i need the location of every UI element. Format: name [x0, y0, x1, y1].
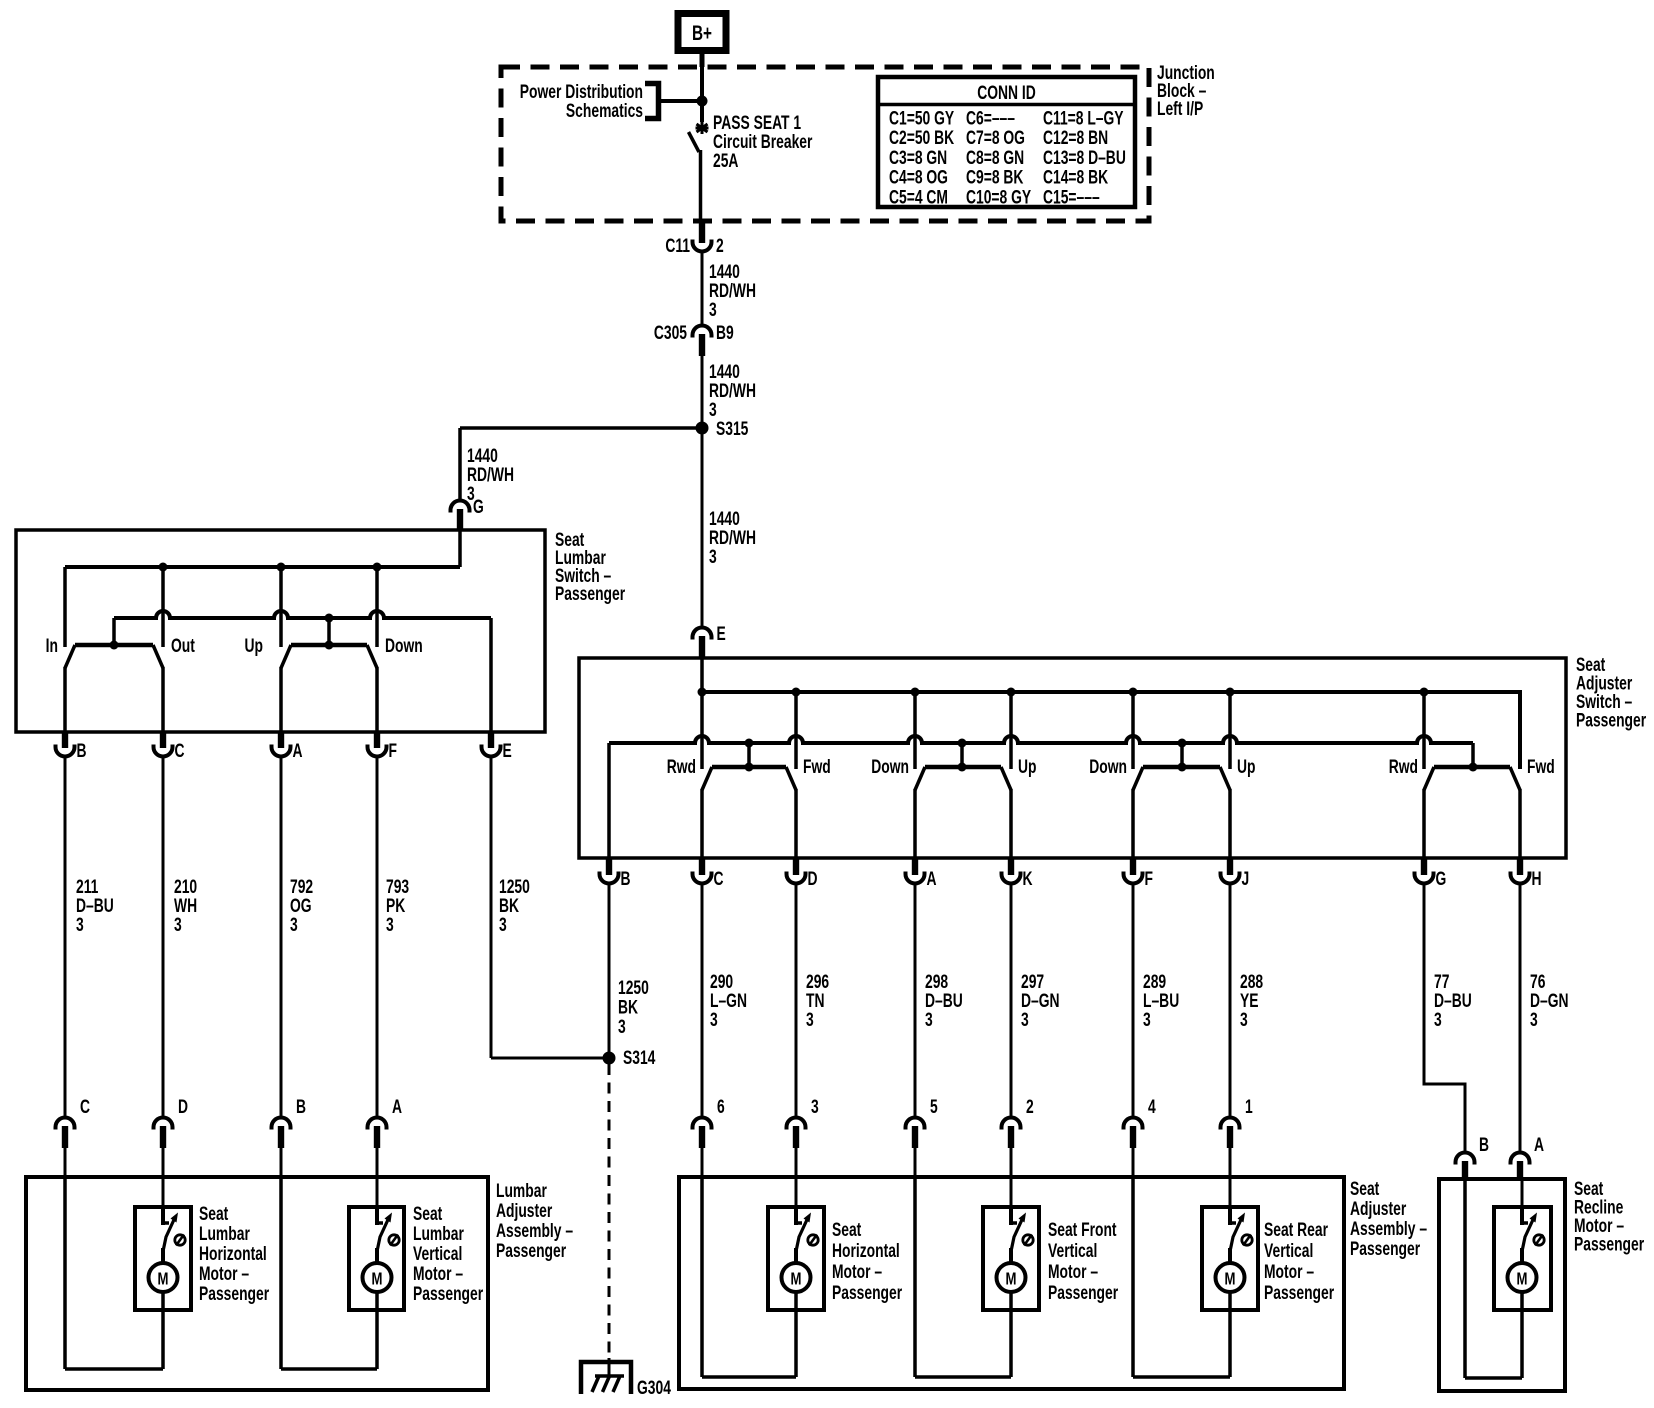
svg-text:B: B [296, 1096, 306, 1118]
svg-text:Passenger: Passenger [496, 1240, 567, 1262]
svg-text:Schematics: Schematics [566, 100, 643, 122]
svg-text:Vertical: Vertical [413, 1243, 462, 1265]
svg-text:3: 3 [1240, 1009, 1248, 1031]
svg-text:A: A [1534, 1134, 1544, 1156]
svg-text:Lumbar: Lumbar [413, 1223, 464, 1245]
svg-text:Lumbar: Lumbar [496, 1180, 547, 1202]
svg-text:3: 3 [811, 1096, 819, 1118]
svg-text:C2=50 BK: C2=50 BK [889, 127, 954, 149]
svg-text:Lumbar: Lumbar [199, 1223, 250, 1245]
svg-text:D: D [808, 868, 818, 890]
svg-text:3: 3 [76, 914, 84, 936]
svg-text:3: 3 [618, 1016, 626, 1038]
svg-text:2: 2 [1026, 1096, 1034, 1118]
svg-text:M: M [1006, 1270, 1017, 1289]
svg-text:M: M [158, 1270, 169, 1289]
svg-text:Rwd: Rwd [667, 756, 696, 778]
svg-text:C12=8 BN: C12=8 BN [1043, 127, 1108, 149]
svg-text:A: A [392, 1096, 402, 1118]
svg-text:4: 4 [1148, 1096, 1156, 1118]
svg-text:Motor –: Motor – [199, 1263, 249, 1285]
svg-text:C: C [714, 868, 724, 890]
svg-text:3: 3 [709, 546, 717, 568]
svg-text:M: M [1225, 1270, 1236, 1289]
svg-text:Passenger: Passenger [1048, 1282, 1119, 1304]
svg-text:Fwd: Fwd [803, 756, 831, 778]
svg-text:F: F [389, 740, 397, 762]
svg-text:3: 3 [925, 1009, 933, 1031]
svg-text:A: A [293, 740, 303, 762]
svg-text:C11: C11 [665, 235, 690, 257]
svg-text:BK: BK [618, 996, 638, 1018]
svg-text:S315: S315 [716, 418, 748, 440]
svg-text:Seat Front: Seat Front [1048, 1219, 1117, 1241]
svg-text:C13=8 D–BU: C13=8 D–BU [1043, 147, 1126, 169]
svg-text:Up: Up [245, 635, 263, 657]
svg-text:Out: Out [171, 635, 195, 657]
svg-text:D: D [178, 1096, 188, 1118]
svg-text:E: E [503, 740, 512, 762]
svg-text:Left I/P: Left I/P [1157, 98, 1203, 120]
svg-text:S314: S314 [623, 1047, 656, 1069]
svg-text:Vertical: Vertical [1048, 1240, 1097, 1262]
svg-text:3: 3 [710, 1009, 718, 1031]
svg-text:C15=–––: C15=––– [1043, 186, 1100, 208]
svg-text:3: 3 [806, 1009, 814, 1031]
svg-text:Passenger: Passenger [832, 1282, 903, 1304]
svg-text:3: 3 [1434, 1009, 1442, 1031]
svg-text:3: 3 [1021, 1009, 1029, 1031]
svg-text:M: M [791, 1270, 802, 1289]
svg-text:Vertical: Vertical [1264, 1240, 1313, 1262]
svg-text:C: C [80, 1096, 90, 1118]
svg-text:M: M [372, 1270, 383, 1289]
svg-text:Motor –: Motor – [832, 1261, 882, 1283]
svg-text:Passenger: Passenger [1576, 709, 1647, 731]
svg-text:CONN ID: CONN ID [977, 82, 1036, 104]
svg-text:H: H [1532, 868, 1542, 890]
svg-text:3: 3 [290, 914, 298, 936]
svg-text:C8=8 GN: C8=8 GN [966, 147, 1024, 169]
svg-text:Up: Up [1018, 756, 1036, 778]
svg-text:M: M [1517, 1270, 1528, 1289]
svg-text:In: In [46, 635, 58, 657]
svg-text:E: E [717, 623, 726, 645]
svg-text:Seat Rear: Seat Rear [1264, 1219, 1328, 1241]
svg-text:3: 3 [709, 299, 717, 321]
svg-text:3: 3 [499, 914, 507, 936]
svg-text:Motor –: Motor – [413, 1263, 463, 1285]
svg-text:C11=8 L–GY: C11=8 L–GY [1043, 107, 1124, 129]
svg-text:1: 1 [1245, 1096, 1253, 1118]
svg-text:3: 3 [386, 914, 394, 936]
svg-text:25A: 25A [713, 150, 738, 172]
svg-text:Seat: Seat [413, 1203, 443, 1225]
svg-text:C3=8 GN: C3=8 GN [889, 147, 947, 169]
svg-text:Down: Down [1089, 756, 1127, 778]
svg-text:C6=–––: C6=––– [966, 107, 1015, 129]
svg-text:Adjuster: Adjuster [496, 1200, 553, 1222]
svg-text:3: 3 [174, 914, 182, 936]
svg-text:F: F [1145, 868, 1153, 890]
svg-text:C305: C305 [654, 322, 687, 344]
svg-text:B: B [621, 868, 631, 890]
svg-text:Up: Up [1237, 756, 1255, 778]
svg-text:K: K [1023, 868, 1033, 890]
svg-text:Horizontal: Horizontal [199, 1243, 267, 1265]
svg-text:6: 6 [717, 1096, 725, 1118]
svg-text:A: A [927, 868, 937, 890]
svg-text:Horizontal: Horizontal [832, 1240, 900, 1262]
svg-text:Seat: Seat [1350, 1178, 1380, 1200]
svg-text:Passenger: Passenger [1264, 1282, 1335, 1304]
svg-text:C: C [175, 740, 185, 762]
svg-text:Motor –: Motor – [1048, 1261, 1098, 1283]
svg-text:Passenger: Passenger [1574, 1233, 1645, 1255]
svg-text:3: 3 [1530, 1009, 1538, 1031]
svg-text:1250: 1250 [618, 977, 649, 999]
svg-text:Seat: Seat [832, 1219, 862, 1241]
svg-text:Adjuster: Adjuster [1350, 1198, 1407, 1220]
svg-text:G: G [473, 496, 484, 518]
svg-text:B+: B+ [692, 21, 712, 45]
svg-text:C14=8 BK: C14=8 BK [1043, 166, 1108, 188]
svg-text:B: B [77, 740, 87, 762]
svg-text:Rwd: Rwd [1389, 756, 1418, 778]
svg-text:Assembly –: Assembly – [1350, 1218, 1427, 1240]
svg-text:Down: Down [871, 756, 909, 778]
svg-text:Seat: Seat [199, 1203, 229, 1225]
svg-text:Passenger: Passenger [199, 1283, 270, 1305]
svg-text:B9: B9 [716, 322, 734, 344]
svg-text:C1=50 GY: C1=50 GY [889, 107, 954, 129]
svg-text:3: 3 [1143, 1009, 1151, 1031]
svg-text:G304: G304 [637, 1377, 672, 1399]
svg-text:Motor –: Motor – [1264, 1261, 1314, 1283]
svg-text:C9=8 BK: C9=8 BK [966, 166, 1023, 188]
svg-text:J: J [1242, 868, 1250, 890]
svg-text:Passenger: Passenger [555, 583, 626, 605]
svg-text:Passenger: Passenger [1350, 1238, 1421, 1260]
svg-text:C10=8 GY: C10=8 GY [966, 186, 1031, 208]
svg-text:Down: Down [385, 635, 423, 657]
svg-text:C7=8 OG: C7=8 OG [966, 127, 1025, 149]
svg-text:B: B [1479, 1134, 1489, 1156]
svg-text:2: 2 [716, 235, 724, 257]
svg-text:Assembly –: Assembly – [496, 1220, 573, 1242]
svg-text:G: G [1436, 868, 1447, 890]
svg-text:5: 5 [930, 1096, 938, 1118]
svg-text:C5=4 CM: C5=4 CM [889, 186, 948, 208]
svg-text:Fwd: Fwd [1527, 756, 1555, 778]
svg-text:Passenger: Passenger [413, 1283, 484, 1305]
svg-text:C4=8 OG: C4=8 OG [889, 166, 948, 188]
